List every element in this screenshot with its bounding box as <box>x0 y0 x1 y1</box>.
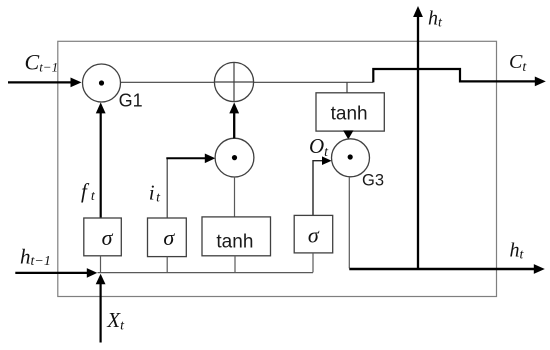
C_t output stepped wire with arrow <box>373 69 546 86</box>
wire adder to C_t step <box>254 81 374 83</box>
h_t output wire right with arrow <box>349 264 545 274</box>
stub sigma3 to bus <box>312 253 314 273</box>
svg-text:G3: G3 <box>362 172 384 190</box>
O_t elbow wire with arrow into G3 <box>313 156 332 215</box>
stub tanh to bus <box>234 256 236 273</box>
tanh box (upper) <box>316 93 384 131</box>
multiplier G1 (circle with dot) <box>83 64 121 102</box>
stub sigma2 to bus <box>166 257 168 273</box>
stub sigma1 to bus <box>100 256 102 273</box>
svg-text:tanh: tanh <box>216 231 253 252</box>
h_{t-1} input arrow <box>15 268 97 278</box>
svg-text:σ: σ <box>163 225 175 250</box>
wire branch down to tanh box <box>346 82 348 93</box>
h_t vertical output wire with up arrow <box>413 6 423 269</box>
input arrow C_{t-1} <box>8 78 82 88</box>
wire multiplier down to tanh box <box>234 177 236 217</box>
svg-text:tanh: tanh <box>331 104 368 125</box>
f_t arrow up into G1 <box>96 102 106 218</box>
adder (circle with plus) <box>214 62 253 101</box>
outer LSTM cell box <box>58 41 497 296</box>
wire G1 to adder <box>121 81 216 83</box>
sigma box 3 <box>294 215 333 253</box>
multiplier G3 (circle with dot) <box>332 139 370 177</box>
tanh box (lower) <box>202 217 271 256</box>
bottom bus wire <box>98 272 314 274</box>
sigma box 1 <box>84 218 122 256</box>
wire G3 down to h output <box>348 177 350 268</box>
svg-text:G1: G1 <box>119 91 143 111</box>
i_t riser wire <box>166 158 168 218</box>
svg-text:σ: σ <box>308 223 320 248</box>
svg-text:σ: σ <box>102 225 114 250</box>
X_t input arrow up <box>96 274 106 343</box>
sigma box 2 <box>148 218 187 257</box>
middle multiplier (circle with dot) <box>215 138 254 177</box>
i_t arrow into middle multiplier <box>166 154 215 164</box>
arrow tanh to G3 <box>343 130 353 139</box>
arrow multiplier up into adder <box>229 102 239 138</box>
